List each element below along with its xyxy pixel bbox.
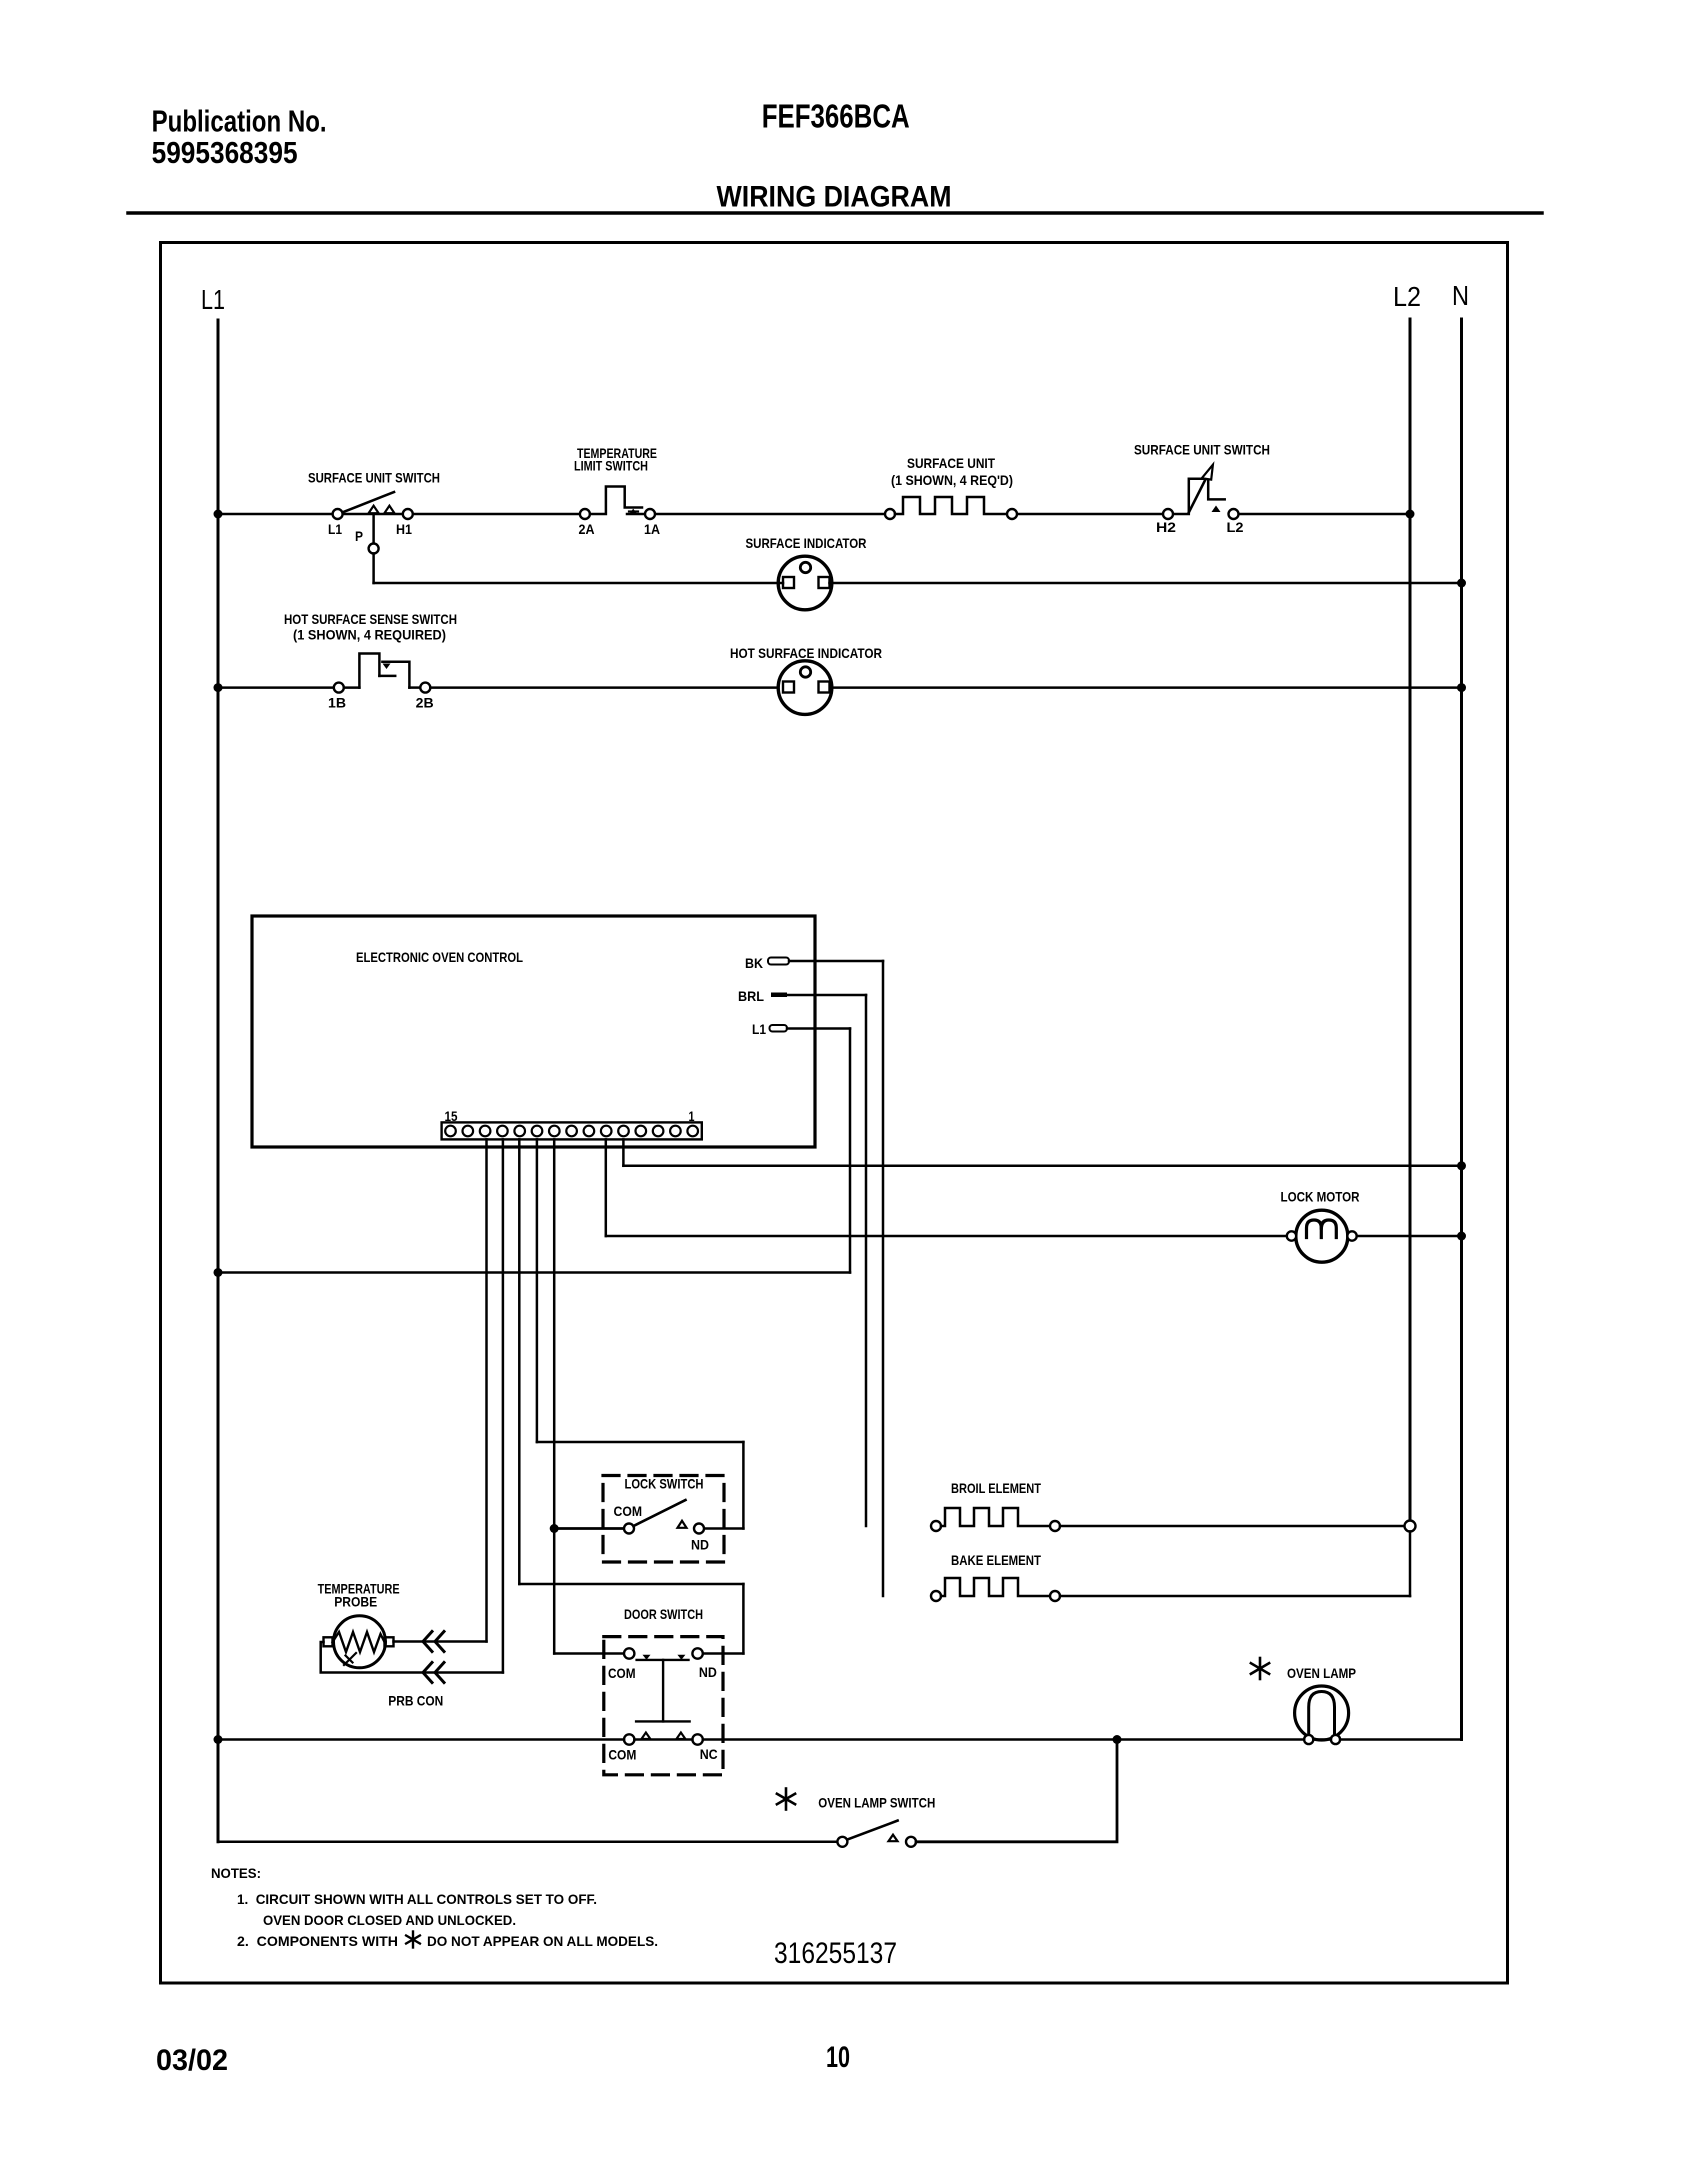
svg-text:LIMIT SWITCH: LIMIT SWITCH bbox=[574, 458, 648, 474]
svg-text:SURFACE UNIT SWITCH: SURFACE UNIT SWITCH bbox=[1134, 442, 1270, 458]
svg-text:Publication No.: Publication No. bbox=[152, 104, 327, 139]
svg-text:OVEN LAMP: OVEN LAMP bbox=[1287, 1665, 1356, 1681]
svg-text:N: N bbox=[1452, 280, 1469, 311]
svg-text:BK: BK bbox=[745, 955, 763, 971]
svg-text:ELECTRONIC OVEN CONTROL: ELECTRONIC OVEN CONTROL bbox=[356, 949, 523, 965]
svg-text:1B: 1B bbox=[328, 695, 346, 711]
svg-text:LOCK MOTOR: LOCK MOTOR bbox=[1281, 1188, 1360, 1204]
svg-text:ND: ND bbox=[699, 1664, 717, 1680]
svg-text:HOT SURFACE SENSE SWITCH: HOT SURFACE SENSE SWITCH bbox=[284, 611, 457, 627]
svg-text:316255137: 316255137 bbox=[774, 1937, 897, 1970]
svg-text:PROBE: PROBE bbox=[334, 1594, 377, 1610]
svg-text:SURFACE UNIT SWITCH: SURFACE UNIT SWITCH bbox=[308, 470, 440, 486]
svg-text:H2: H2 bbox=[1156, 519, 1176, 535]
svg-text:2. COMPONENTS WITH: 2. COMPONENTS WITH bbox=[237, 1933, 398, 1949]
svg-text:COM: COM bbox=[614, 1503, 643, 1519]
svg-text:1A: 1A bbox=[644, 521, 660, 537]
svg-text:(1 SHOWN, 4 REQUIRED): (1 SHOWN, 4 REQUIRED) bbox=[293, 627, 446, 643]
svg-text:SURFACE INDICATOR: SURFACE INDICATOR bbox=[746, 535, 867, 551]
svg-text:NOTES:: NOTES: bbox=[211, 1865, 261, 1881]
svg-text:L1: L1 bbox=[201, 284, 225, 315]
svg-text:BRL: BRL bbox=[738, 988, 764, 1004]
svg-text:COM: COM bbox=[608, 1665, 636, 1681]
svg-text:P: P bbox=[355, 528, 363, 544]
svg-text:DOOR SWITCH: DOOR SWITCH bbox=[624, 1606, 703, 1622]
svg-text:COM: COM bbox=[608, 1746, 636, 1762]
svg-text:1: 1 bbox=[689, 1108, 695, 1124]
svg-text:L2: L2 bbox=[1227, 519, 1244, 535]
svg-text:PRB CON: PRB CON bbox=[388, 1693, 443, 1709]
svg-text:L1: L1 bbox=[752, 1021, 766, 1037]
svg-text:BAKE ELEMENT: BAKE ELEMENT bbox=[951, 1552, 1041, 1568]
svg-text:L1: L1 bbox=[328, 521, 342, 537]
svg-text:(1 SHOWN, 4 REQ'D): (1 SHOWN, 4 REQ'D) bbox=[891, 472, 1013, 488]
svg-text:NC: NC bbox=[700, 1746, 718, 1762]
svg-text:BROIL ELEMENT: BROIL ELEMENT bbox=[951, 1480, 1041, 1496]
svg-text:1. CIRCUIT SHOWN WITH ALL CON: 1. CIRCUIT SHOWN WITH ALL CONTROLS SET T… bbox=[237, 1891, 597, 1907]
svg-text:FEF366BCA: FEF366BCA bbox=[762, 98, 910, 135]
svg-text:OVEN LAMP SWITCH: OVEN LAMP SWITCH bbox=[818, 1795, 935, 1811]
svg-text:H1: H1 bbox=[396, 521, 412, 537]
svg-text:10: 10 bbox=[826, 2041, 850, 2074]
svg-text:SURFACE UNIT: SURFACE UNIT bbox=[907, 455, 995, 471]
svg-text:03/02: 03/02 bbox=[156, 2044, 228, 2077]
svg-text:OVEN DOOR CLOSED AND UNLOCKED.: OVEN DOOR CLOSED AND UNLOCKED. bbox=[263, 1912, 516, 1928]
svg-text:LOCK SWITCH: LOCK SWITCH bbox=[625, 1476, 704, 1492]
svg-text:ND: ND bbox=[691, 1537, 709, 1553]
svg-text:L2: L2 bbox=[1393, 281, 1421, 312]
svg-text:HOT SURFACE INDICATOR: HOT SURFACE INDICATOR bbox=[730, 645, 882, 661]
svg-text:DO NOT APPEAR ON ALL MODELS.: DO NOT APPEAR ON ALL MODELS. bbox=[427, 1933, 658, 1949]
svg-text:15: 15 bbox=[445, 1108, 458, 1124]
svg-text:2B: 2B bbox=[416, 695, 434, 711]
svg-text:WIRING DIAGRAM: WIRING DIAGRAM bbox=[717, 180, 952, 213]
svg-text:2A: 2A bbox=[579, 521, 595, 537]
svg-text:5995368395: 5995368395 bbox=[152, 135, 298, 170]
